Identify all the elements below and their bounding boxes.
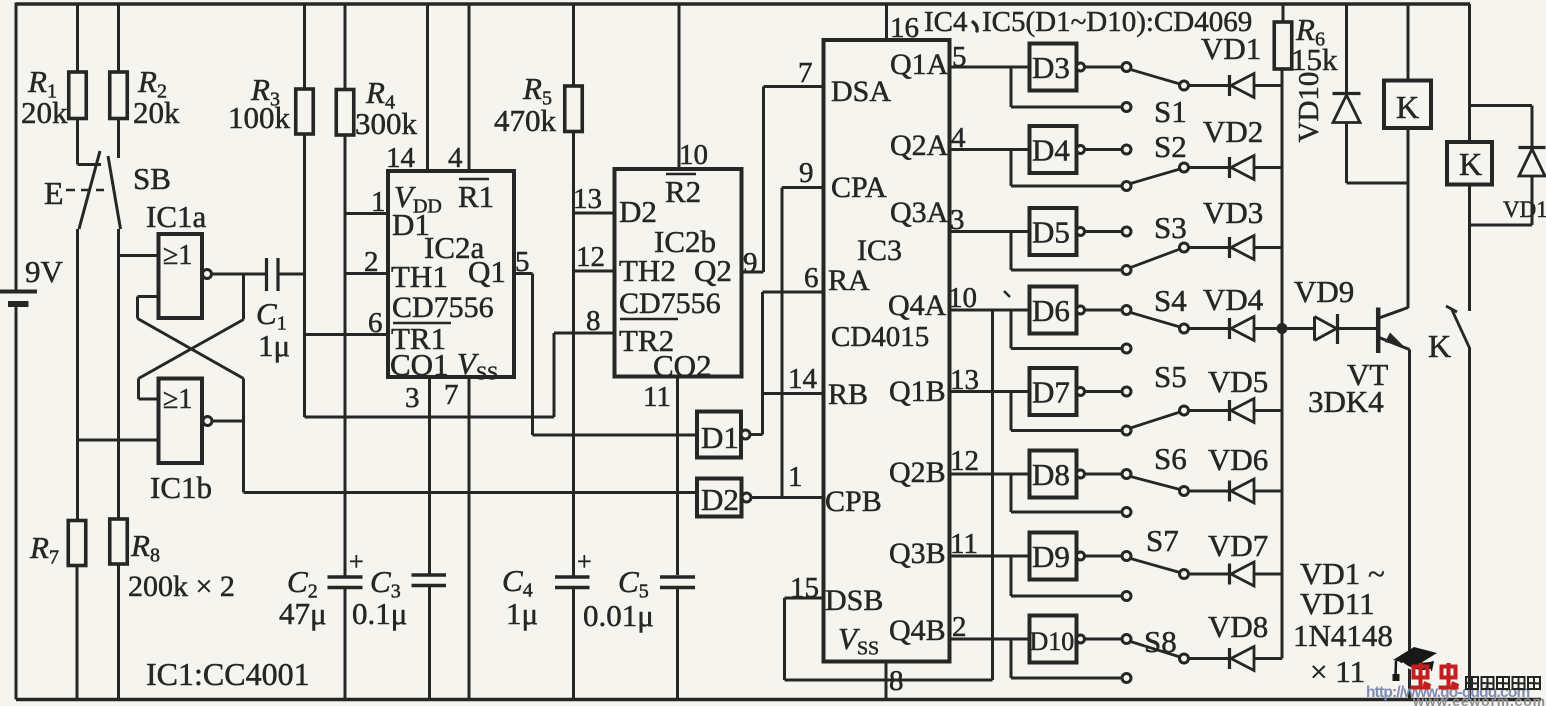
diode VD2 1N4148 (1189, 114, 1283, 180)
wire direct feed to S4 lower contact (1011, 310, 1122, 349)
switch S3 (1122, 210, 1189, 275)
svg-text:VD9: VD9 (1294, 274, 1354, 309)
svg-text:CD7556: CD7556 (392, 291, 494, 324)
resistor R4 300k (336, 4, 417, 577)
resistor R1 20k (21, 4, 86, 165)
wire node B (R2/SB to R8, IC1a input) (117, 229, 120, 519)
wire R5 to IC2b TH2 (pin 12) (574, 270, 615, 273)
diode VD1 1N4148 (1189, 31, 1283, 98)
svg-text:11: 11 (643, 381, 671, 413)
svg-text:Q3B: Q3B (889, 537, 946, 570)
svg-text:4: 4 (448, 142, 463, 174)
svg-text:www.eeworm.com: www.eeworm.com (1412, 693, 1546, 706)
wire IC2a pin 4 to supply rail (468, 4, 471, 171)
wire IC3 output to D7 input (950, 390, 1030, 393)
switch S2 (1122, 129, 1189, 191)
svg-text:IC1:CC4001: IC1:CC4001 (146, 656, 310, 692)
wire IC2b pin 10 to supply rail (678, 4, 681, 169)
wire direct feed to S5 lower contact (1011, 392, 1122, 431)
svg-text:S1: S1 (1154, 94, 1187, 129)
op-amp U-IC2a timer CD7556 (half) (388, 171, 514, 385)
wire direct feed to S6 lower contact (1011, 474, 1122, 512)
switch S6 (1122, 441, 1189, 517)
svg-text:SB: SB (133, 161, 171, 196)
svg-text:14: 14 (788, 363, 818, 395)
svg-text:0.01μ: 0.01μ (583, 598, 654, 633)
svg-text:TH1: TH1 (391, 259, 448, 294)
svg-text:13: 13 (573, 183, 602, 215)
svg-text:6: 6 (804, 262, 819, 294)
svg-text:Q2: Q2 (694, 253, 732, 288)
label IC1:CC4001 (146, 656, 310, 692)
svg-text:K: K (1428, 328, 1451, 364)
resistor R8 200k x2 (110, 519, 235, 700)
wire IC2b pin 11 to C5 (676, 377, 679, 576)
relay K coil 2 (1447, 4, 1532, 225)
svg-text:9V: 9V (25, 254, 64, 289)
svg-text:7: 7 (444, 379, 459, 411)
svg-text:D6: D6 (1032, 293, 1070, 328)
wire IC3 DSB (pin 15) cascade from Q4A (785, 310, 993, 680)
node junction (VD4/VD9 bus) (1277, 323, 1288, 334)
diode VD10 (relay freewheel) (1293, 4, 1408, 183)
svg-text:1μ: 1μ (258, 328, 290, 363)
diode VD7 1N4148 (1189, 528, 1283, 586)
capacitor C5 0.01u (583, 564, 695, 700)
wire R5 to IC2b D2 (pin 13) (574, 212, 615, 215)
svg-text:DSA: DSA (831, 75, 891, 108)
svg-text:D5: D5 (1032, 215, 1070, 250)
gate D4 (inverter) (1030, 126, 1085, 173)
svg-text:300k: 300k (355, 106, 418, 141)
gate D10 (inverter) (1030, 616, 1085, 663)
wire IC2a pin 7 to ground rail (468, 377, 471, 700)
wire IC1a input 1 from R2 line (119, 254, 159, 257)
wire IC1b input 1 from R1 line (78, 439, 159, 442)
svg-text:≥1: ≥1 (163, 240, 192, 271)
resistor R2 20k (110, 4, 180, 158)
svg-text:D9: D9 (1032, 539, 1070, 574)
svg-text:20k: 20k (133, 95, 180, 130)
gate IC1a (NOR, CC4001) (146, 199, 212, 318)
svg-text:3DK4: 3DK4 (1308, 384, 1384, 419)
switch K (relay contact) (1428, 225, 1470, 700)
svg-text:RA: RA (828, 264, 870, 297)
svg-text:TH2: TH2 (619, 253, 676, 288)
svg-text:Q2A: Q2A (890, 129, 949, 162)
diode VD8 1N4148 (1189, 609, 1283, 671)
svg-text:3: 3 (405, 382, 420, 414)
gate IC1b (NOR, CC4001) (150, 379, 212, 506)
svg-text:VD6: VD6 (1208, 442, 1268, 477)
svg-text:Q2B: Q2B (889, 456, 946, 489)
gate D7 (inverter) (1030, 368, 1085, 415)
wire R4 to IC2a TH1 (pin 2) (345, 272, 388, 275)
svg-text:S8: S8 (1144, 624, 1177, 659)
diode VD4 1N4148 (1189, 282, 1283, 341)
svg-text:1N4148: 1N4148 (1293, 618, 1393, 653)
svg-text:K: K (1459, 146, 1482, 182)
label VD1~VD11 1N4148 x11 (1293, 556, 1393, 689)
op-amp U-IC2b timer CD7556 (half) (615, 169, 742, 383)
svg-text:6: 6 (368, 307, 383, 339)
switch S8 (1122, 624, 1189, 683)
svg-text:≥1: ≥1 (163, 384, 192, 415)
svg-text:47μ: 47μ (279, 596, 327, 631)
wire IC3 pin 8 (VSS) to ground rail (885, 662, 888, 700)
svg-text:VD11: VD11 (1300, 586, 1375, 621)
svg-text:S3: S3 (1154, 210, 1187, 245)
svg-text:D8: D8 (1032, 457, 1070, 492)
wire D5 output to S3 upper contact (1085, 230, 1123, 233)
battery E 9V (0, 254, 64, 304)
switch SB (push-button, 2 poles) (44, 151, 171, 229)
wire IC1a input 2 (feedback from IC1b output) (138, 297, 244, 379)
capacitor C4 1u (electrolytic +) (502, 547, 592, 700)
svg-text:16: 16 (890, 12, 919, 44)
svg-text:CO1: CO1 (390, 347, 449, 382)
svg-text:D7: D7 (1032, 375, 1070, 410)
resistor R5 470k (494, 4, 582, 576)
wire IC3 output to D10 input (950, 638, 1030, 641)
svg-text:Q1A: Q1A (890, 48, 949, 81)
wire left rail (battery top side) (15, 3, 18, 292)
wire IC3 pin 16 to supply rail (885, 4, 888, 40)
svg-text:VD7: VD7 (1208, 528, 1268, 563)
gate D2 (inverter CD4069) (697, 479, 751, 518)
svg-text:+: + (577, 547, 592, 576)
svg-text:12: 12 (576, 241, 605, 273)
svg-text:Q1B: Q1B (889, 375, 946, 408)
wire D6 output to S4 upper contact (1085, 309, 1123, 312)
svg-text:S7: S7 (1146, 523, 1179, 558)
relay K coil 1 (1384, 4, 1431, 308)
svg-text:Q3A: Q3A (890, 196, 949, 229)
svg-text:D3: D3 (1032, 50, 1070, 85)
watermark text dianzi xiazaizhan (dark) (1466, 677, 1540, 689)
wire R4 to IC2a pin 1 (345, 212, 388, 215)
gate D3 (inverter) (1030, 44, 1085, 91)
gate D8 (inverter) (1030, 451, 1085, 498)
svg-text:200k × 2: 200k × 2 (128, 570, 235, 603)
svg-text:1: 1 (371, 186, 386, 218)
svg-text:1μ: 1μ (506, 596, 538, 631)
svg-text:1: 1 (788, 461, 803, 493)
svg-text:+: + (349, 547, 364, 576)
svg-text:CPA: CPA (831, 171, 887, 204)
svg-text:Q1: Q1 (468, 254, 506, 289)
svg-text:8: 8 (586, 305, 601, 337)
svg-text:D4: D4 (1032, 133, 1070, 168)
wire direct feed to S3 lower contact (1011, 232, 1122, 271)
svg-text:VD3: VD3 (1203, 195, 1263, 230)
wire IC3 output to D6 input (950, 309, 1030, 312)
svg-text:R2: R2 (665, 174, 701, 209)
resistor R3 100k (228, 4, 313, 417)
wire IC2a pin 3 to C3 (428, 377, 431, 575)
svg-text:2: 2 (364, 246, 379, 278)
svg-text:0.1μ: 0.1μ (352, 596, 407, 631)
wire D8 output to S6 upper contact (1085, 473, 1123, 476)
gate D9 (inverter) (1030, 533, 1085, 580)
svg-text:IC1b: IC1b (150, 470, 212, 505)
svg-text:100k: 100k (228, 100, 291, 135)
svg-text:S2: S2 (1154, 129, 1187, 164)
diode VD5 1N4148 (1189, 364, 1283, 423)
svg-text:IC4: IC4 (924, 6, 968, 38)
capacitor C3 0.1u (352, 564, 446, 700)
svg-text:VD5: VD5 (1208, 364, 1268, 399)
svg-text:VD8: VD8 (1208, 609, 1268, 644)
svg-text:D1: D1 (701, 420, 739, 455)
wire IC2a pin 14 to supply rail (426, 4, 429, 171)
svg-text:7: 7 (798, 57, 813, 89)
svg-text:RB: RB (828, 378, 868, 411)
wire D7 output to S5 upper contact (1085, 390, 1123, 393)
wire R3 bottom run to IC2b TR2 (pin 8) (305, 333, 615, 417)
svg-text:20k: 20k (21, 95, 68, 130)
svg-text:IC5(D1~D10):CD4069: IC5(D1~D10):CD4069 (982, 6, 1252, 38)
wire D10 output to S8 upper contact (1085, 638, 1123, 641)
svg-text:S4: S4 (1154, 283, 1187, 318)
wire IC3 output to D3 input (950, 66, 1030, 69)
wire IC3 output to D9 input (950, 555, 1030, 558)
wire D1 output to IC3 RA (pin 6) and RB (pin 14) (750, 292, 824, 435)
label IC2b pin numbers (573, 139, 758, 413)
wire D2 output to IC3 CPB (pin 1) and CPA (pin 9) (751, 188, 824, 498)
wire D3 output to S1 upper contact (1085, 66, 1123, 69)
switch S1 (1122, 63, 1189, 130)
wire top supply rail (16, 2, 1470, 5)
wire direct feed to S2 lower contact (1011, 150, 1122, 187)
svg-text:IC1a: IC1a (146, 199, 207, 234)
wire D9 output to S7 upper contact (1085, 555, 1123, 558)
svg-text:VD11: VD11 (1503, 197, 1546, 222)
svg-text:Q4B: Q4B (889, 614, 946, 647)
wire IC3 output to D4 input (950, 148, 1030, 151)
svg-text:12: 12 (950, 445, 979, 477)
wire direct feed to S1 lower contact (1011, 67, 1122, 107)
svg-text:CO2: CO2 (653, 348, 712, 383)
label IC4,IC5 (D1-D10):CD4069 (924, 6, 1252, 38)
svg-text:10: 10 (679, 139, 708, 171)
resistor R6 15k (1274, 4, 1338, 77)
resistor R7 (29, 521, 86, 700)
svg-text:14: 14 (386, 142, 416, 174)
capacitor C1 1u (256, 258, 305, 363)
diode VD3 1N4148 (1189, 195, 1283, 260)
label IC3 pin numbers (788, 12, 979, 697)
svg-text:CD7556: CD7556 (619, 287, 721, 320)
svg-text:Q4A: Q4A (888, 289, 947, 322)
diode VD6 1N4148 (1189, 442, 1283, 503)
svg-text:D2: D2 (619, 194, 657, 229)
svg-text:E: E (44, 175, 64, 211)
wire left rail (battery bottom side) (15, 306, 18, 700)
wire IC1b output to D2 input (212, 379, 697, 493)
svg-text:D10: D10 (1030, 627, 1075, 656)
svg-text:9: 9 (799, 157, 814, 189)
svg-text:VD2: VD2 (1203, 114, 1263, 149)
svg-text:R1: R1 (458, 179, 494, 214)
label IC2a pin numbers (364, 142, 530, 414)
svg-text:DSB: DSB (825, 584, 883, 617)
gate D1 (inverter CD4069) (697, 412, 750, 458)
wire R3/C1 node to IC2a TR1 (pin 6) (305, 333, 389, 336)
svg-text:470k: 470k (494, 103, 557, 138)
switch S7 (1122, 523, 1189, 601)
svg-text:9: 9 (743, 247, 758, 279)
wire D4 output to S2 upper contact (1085, 148, 1123, 151)
watermark url go-gddq (blue) (1366, 684, 1529, 701)
svg-text:S5: S5 (1154, 359, 1187, 394)
diode VD11 (1503, 106, 1546, 226)
svg-text:D2: D2 (701, 482, 739, 517)
wire IC3 output to D8 input (950, 473, 1030, 476)
watermark text chongchong (red) (1411, 663, 1459, 688)
switch S5 (1122, 359, 1189, 435)
wire direct feed to S8 lower contact (1011, 639, 1122, 678)
transistor Q-VT 3DK4 (NPN) (1308, 308, 1410, 700)
gate D5 (inverter) (1030, 208, 1085, 255)
svg-text:VD10: VD10 (1293, 72, 1325, 143)
wire IC2a Q1 (pin 5) to D1 input (514, 274, 697, 436)
svg-text:S6: S6 (1154, 441, 1187, 476)
watermark logo (graduation cap) (1393, 647, 1438, 681)
wire bottom ground rail (16, 698, 1541, 701)
op-amp U-IC3 shift register CD4015 (824, 40, 950, 662)
svg-text:CD4015: CD4015 (831, 321, 929, 353)
stray mark near Q2A (1004, 291, 1010, 297)
switch S4 (1122, 283, 1189, 353)
gate D6 (inverter) (1030, 287, 1085, 334)
svg-text:IC3: IC3 (857, 234, 902, 267)
svg-text:CPB: CPB (825, 485, 882, 518)
wire IC1a output to C1 and cross-couple (139, 274, 266, 399)
wire diode summing bus (1281, 69, 1284, 659)
wire direct feed to S7 lower contact (1011, 556, 1122, 596)
capacitor C2 47u (electrolytic +) (279, 547, 364, 700)
wire node A (R1/SB to R7, IC1b input) (76, 229, 79, 521)
svg-text:VD4: VD4 (1203, 282, 1264, 317)
svg-text:× 11: × 11 (1310, 654, 1365, 689)
wire IC2b Q2 (pin 9) to IC3 DSA (742, 87, 824, 273)
wire IC3 output to D5 input (950, 230, 1030, 233)
svg-text:K: K (1396, 89, 1419, 125)
watermark url eeworm (grey) (1412, 693, 1546, 706)
diode VD9 (1282, 274, 1377, 344)
